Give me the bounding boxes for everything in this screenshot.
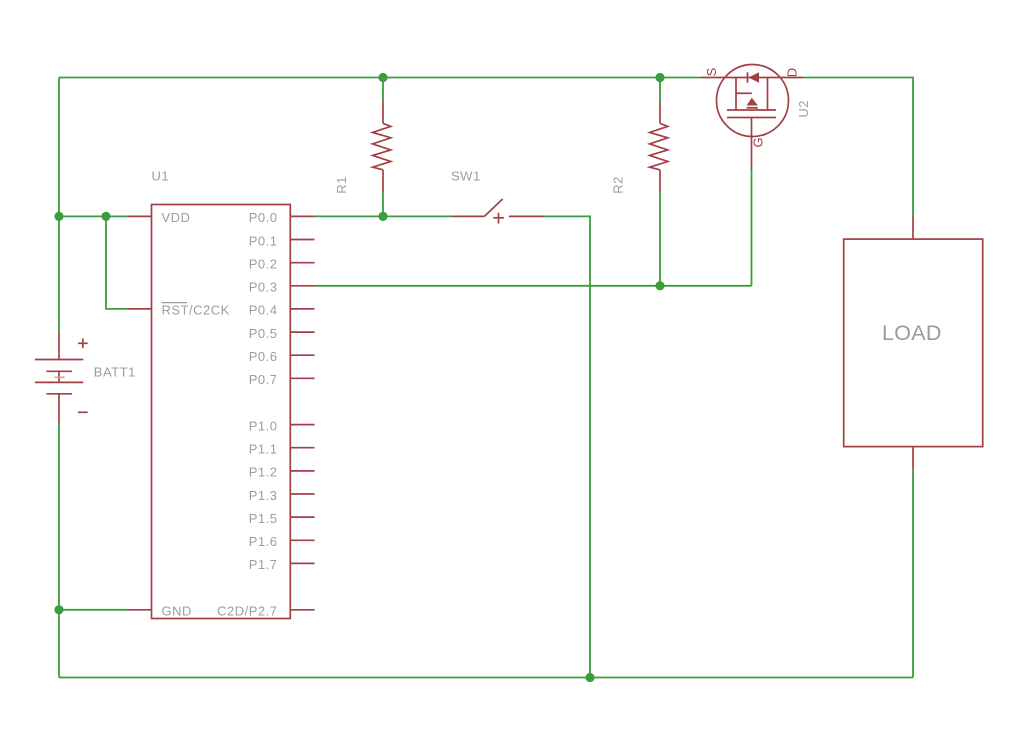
junction R1 top rail [378, 73, 387, 82]
mosfet U2 refdes label [796, 100, 811, 118]
wire VDD row to IC [59, 215, 128, 217]
junction R1 bottom [378, 212, 387, 221]
battery BATT1 cell2 short plate [46, 393, 72, 395]
svg-text:VDD: VDD [162, 210, 191, 225]
svg-text:U2: U2 [796, 100, 811, 118]
svg-text:RST/C2CK: RST/C2CK [162, 303, 230, 318]
resistor R1 zigzag [373, 123, 391, 169]
ic U1 body [152, 205, 291, 619]
svg-text:C2D/P2.7: C2D/P2.7 [217, 604, 277, 619]
resistor R1 top lead [382, 101, 384, 123]
ic U1 pin names P1.x [249, 418, 278, 572]
junction R2 bottom gate net [655, 281, 664, 290]
battery BATT1 inter-cell link [55, 371, 65, 382]
resistor R2 label [611, 176, 626, 194]
junction RST branch [101, 212, 110, 221]
svg-text:BATT1: BATT1 [94, 365, 136, 380]
resistor R2 top lead [659, 101, 661, 123]
svg-text:P0.6: P0.6 [249, 349, 278, 364]
svg-text:P0.5: P0.5 [249, 326, 278, 341]
ic U1 pin RST/C2CK stub [128, 308, 152, 310]
battery BATT1 bottom lead [58, 394, 60, 424]
mosfet U2 circle [717, 65, 789, 137]
battery BATT1 label [94, 365, 136, 380]
wire bottom rail [59, 677, 913, 679]
battery BATT1 plus sign [78, 339, 88, 349]
mosfet U2 body diode [748, 72, 760, 83]
ic U1 pin name C2D/P2.7 [217, 604, 277, 619]
load box body [844, 239, 983, 447]
ic U1 pin name RST/C2CK with overline [162, 303, 230, 318]
battery BATT1 top lead [58, 331, 60, 359]
ic U1 refdes label [152, 169, 170, 184]
resistor R2 bottom lead [659, 170, 661, 192]
wire VDD top rail [59, 77, 701, 79]
svg-text:P0.7: P0.7 [249, 372, 278, 387]
wire P0.0 to SW1 [315, 215, 453, 217]
switch SW1 label [451, 169, 481, 184]
switch SW1 left pin [452, 215, 484, 217]
mosfet U2 source bar [735, 78, 737, 111]
junction battery GND [54, 605, 63, 614]
load box label [882, 321, 942, 345]
ic U1 right pin stubs P1.0-P1.7 [290, 425, 314, 564]
wire LOAD bottom [912, 469, 914, 677]
mosfet U2 drain bar [767, 78, 769, 111]
ic U1 right pin stubs P0.0-P0.7 [290, 216, 314, 378]
svg-text:GND: GND [162, 604, 192, 619]
ic U1 pin GND stub [128, 609, 152, 611]
svg-text:P0.2: P0.2 [249, 257, 278, 272]
svg-text:P1.3: P1.3 [249, 488, 278, 503]
resistor R1 bottom lead [382, 170, 384, 192]
mosfet U2 pin label S [704, 67, 719, 76]
ic U1 pin VDD stub [128, 215, 152, 217]
wire R1 top [382, 78, 384, 102]
wire SW1 to bottom rail [544, 216, 590, 677]
battery BATT1 cell2 long plate [35, 381, 83, 383]
mosfet U2 source-drain line [701, 77, 803, 79]
mosfet U2 gate line [727, 117, 776, 119]
svg-text:P1.5: P1.5 [249, 511, 278, 526]
svg-text:S: S [704, 67, 719, 76]
wire R1 bottom [382, 192, 384, 216]
svg-text:P0.4: P0.4 [249, 303, 278, 318]
load box top pin stub [912, 217, 914, 240]
junction switch bottom rail [585, 673, 594, 682]
battery BATT1 minus sign [78, 411, 88, 413]
wire gate down [751, 170, 753, 286]
svg-text:P1.6: P1.6 [249, 534, 278, 549]
wire P0.3 row [315, 285, 752, 287]
wire left rail down to battery + [58, 78, 60, 332]
svg-text:D: D [785, 68, 800, 77]
wire R2 bottom [659, 192, 661, 286]
ic U1 pin C2D/P2.7 stub [290, 609, 314, 611]
battery BATT1 cell1 long plate [35, 359, 83, 361]
svg-text:P1.7: P1.7 [249, 557, 278, 572]
resistor R1 label [334, 176, 349, 194]
switch SW1 right pin [509, 215, 544, 217]
svg-text:U1: U1 [152, 169, 170, 184]
load box bottom pin stub [912, 447, 914, 470]
svg-text:P1.0: P1.0 [249, 418, 278, 433]
svg-text:P0.1: P0.1 [249, 233, 278, 248]
svg-text:P0.3: P0.3 [249, 280, 278, 295]
resistor R2 zigzag [650, 123, 668, 169]
switch SW1 actuator plus [493, 213, 504, 224]
mosfet U2 pin label D [785, 68, 800, 77]
mosfet U2 pin label G [751, 137, 766, 147]
svg-text:SW1: SW1 [451, 169, 481, 184]
junction R2 top rail [655, 73, 664, 82]
svg-text:P1.1: P1.1 [249, 442, 278, 457]
wire battery - down to GND junction and bottom rail corner [58, 424, 60, 678]
wire drain to LOAD [803, 78, 913, 217]
ic U1 pin names P0.x [249, 210, 278, 387]
wire RST/C2CK from VDD junction [106, 216, 128, 309]
svg-text:R1: R1 [334, 176, 349, 194]
svg-text:G: G [751, 137, 766, 147]
wire GND to IC [59, 609, 128, 611]
wire R2 top [659, 78, 661, 102]
ic U1 pin name VDD [162, 210, 191, 225]
mosfet U2 channel line [727, 109, 776, 111]
svg-text:LOAD: LOAD [882, 321, 942, 345]
svg-text:R2: R2 [611, 176, 626, 194]
junction VDD-left-rail [54, 212, 63, 221]
battery BATT1 cell1 short plate [46, 370, 72, 372]
ic U1 pin name GND [162, 604, 192, 619]
mosfet U2 bulk connection [736, 93, 758, 108]
switch SW1 blade [484, 199, 502, 216]
svg-text:P1.2: P1.2 [249, 465, 278, 480]
svg-text:P0.0: P0.0 [249, 210, 278, 225]
mosfet U2 gate lead [751, 118, 753, 171]
